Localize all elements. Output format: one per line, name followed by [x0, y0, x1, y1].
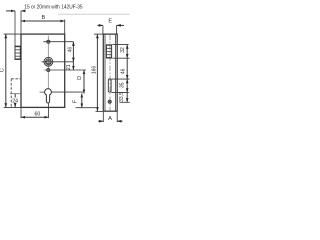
E extension right — [116, 25, 118, 34]
latch top extension to 32 — [112, 44, 128, 46]
dimension A extension left — [102, 112, 104, 122]
cylinder axis line to chain F — [52, 91, 84, 93]
hole H1 top fixing hole — [47, 40, 50, 43]
svg-text:F: F — [73, 99, 79, 103]
dimension 166 line — [96, 34, 98, 111]
dimension 15/20 left segment arrow — [6, 10, 15, 12]
svg-text:B: B — [42, 15, 46, 21]
svg-text:D: D — [77, 76, 83, 80]
dimension 60 line — [21, 116, 49, 118]
svg-text:166: 166 — [92, 66, 98, 75]
B right extension line — [64, 20, 66, 35]
dimension 60 extension at cylinder axis — [48, 103, 50, 118]
svg-text:A: A — [108, 116, 112, 122]
svg-text:32: 32 — [120, 47, 126, 53]
screw hole — [108, 100, 111, 103]
faceplate front view outline — [103, 34, 117, 111]
faceplate U-profile right bend — [115, 34, 117, 111]
slot bottom extension — [111, 91, 129, 93]
follower hub square spindle hole — [47, 60, 50, 63]
dimension A left segment — [98, 120, 103, 122]
svg-text:46: 46 — [121, 68, 127, 74]
dimension chain right line 46 — [126, 58, 128, 79]
hole H2 cylinder fixing hole — [47, 69, 50, 72]
latch bottom extension — [112, 57, 129, 59]
dimension B line — [21, 20, 65, 22]
dimension F line — [81, 94, 83, 108]
dimension A extension right — [116, 112, 118, 122]
hidden outline dashed horizontal — [11, 78, 21, 80]
plate bottom extension for 166 — [96, 110, 104, 112]
dimension A right segment — [117, 120, 122, 122]
dimension D line — [83, 70, 85, 94]
svg-text:21: 21 — [66, 64, 72, 70]
hidden outline dashed vertical — [10, 79, 12, 107]
screw hole cross — [109, 101, 111, 103]
faceplate U-profile left bend — [104, 34, 106, 111]
dimension C line — [5, 34, 7, 107]
lock case outline — [21, 34, 65, 107]
dimension chain 46/21 line — [72, 42, 74, 62]
dimension 60 extension left — [20, 108, 22, 118]
plate top extension for 166 — [94, 33, 103, 35]
case bottom extension to C — [4, 106, 21, 108]
follower hub outer circle — [44, 57, 53, 66]
cylinder slot cutout — [108, 79, 111, 92]
H2 cross line to chain D — [44, 69, 86, 71]
cylinder axis left stub — [40, 91, 45, 93]
H1 cross line to chain 46 — [43, 41, 73, 43]
svg-text:E: E — [108, 19, 112, 25]
latch cutout front view — [106, 45, 111, 58]
svg-text:60: 60 — [35, 112, 41, 118]
hub cross line to chain — [42, 61, 74, 63]
case top extension to C — [4, 33, 21, 35]
svg-text:24: 24 — [12, 99, 18, 105]
dimension E line right segment — [117, 24, 124, 26]
faceplate centerline — [109, 35, 111, 111]
dimension 24 line — [14, 94, 16, 107]
euro cylinder cutout — [45, 89, 52, 103]
E extension left — [102, 25, 104, 34]
dimension 15/20 right segment arrow — [21, 10, 25, 12]
F bottom extension line — [76, 107, 96, 109]
latch bolt side view — [15, 46, 20, 59]
dimension chain right line 35 — [126, 79, 128, 92]
dimension E line left segment — [98, 24, 103, 26]
vertical centerline of hole column — [47, 36, 49, 89]
svg-text:15 or 20mm with 142UF-35: 15 or 20mm with 142UF-35 — [24, 5, 82, 11]
dimension chain right line 33,5 — [126, 92, 128, 102]
dimension chain right line 32 — [126, 45, 128, 59]
screw hole extension — [120, 101, 130, 103]
scan artifact faint line — [58, 13, 130, 15]
slot top extension — [111, 78, 129, 80]
label 24 — [12, 98, 18, 105]
svg-text:C: C — [0, 68, 6, 72]
case front upper extension line — [20, 11, 22, 34]
faceplate plane extension line — [14, 11, 16, 46]
svg-text:33,5: 33,5 — [119, 92, 125, 102]
hidden lower edge line — [10, 93, 21, 95]
svg-text:46: 46 — [67, 47, 73, 53]
svg-text:35: 35 — [119, 82, 125, 88]
